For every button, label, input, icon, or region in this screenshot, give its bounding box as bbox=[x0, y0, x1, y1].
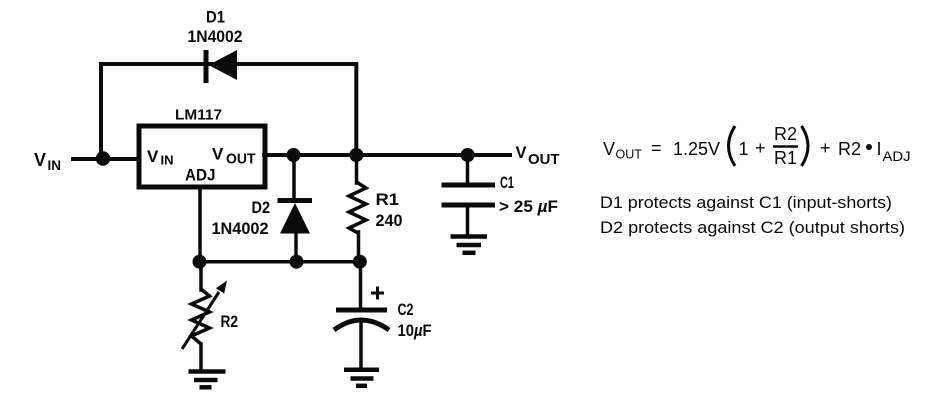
svg-text:ADJ: ADJ bbox=[185, 165, 216, 184]
svg-text:1.25V: 1.25V bbox=[673, 139, 720, 159]
svg-text:D2 protects against C2 (output: D2 protects against C2 (output shorts) bbox=[600, 219, 905, 237]
svg-text:R1: R1 bbox=[774, 148, 797, 168]
svg-text:+: + bbox=[755, 138, 766, 158]
svg-text:10µF: 10µF bbox=[398, 321, 432, 340]
svg-text:ADJ: ADJ bbox=[883, 148, 911, 164]
svg-text:I: I bbox=[877, 139, 882, 159]
svg-text:D2: D2 bbox=[252, 198, 271, 217]
svg-text:1N4002: 1N4002 bbox=[212, 219, 269, 238]
svg-text:240: 240 bbox=[376, 211, 403, 230]
svg-text:+: + bbox=[820, 138, 831, 158]
svg-text:V: V bbox=[516, 144, 527, 162]
svg-text:OUT: OUT bbox=[226, 150, 256, 167]
svg-text:OUT: OUT bbox=[528, 151, 560, 168]
svg-text:V: V bbox=[34, 150, 46, 170]
svg-text:R1: R1 bbox=[376, 190, 400, 209]
svg-text:LM117: LM117 bbox=[175, 107, 222, 124]
svg-text:R2: R2 bbox=[221, 312, 239, 331]
svg-text:R2: R2 bbox=[774, 124, 797, 144]
svg-text:V: V bbox=[147, 147, 159, 166]
svg-text:1N4002: 1N4002 bbox=[188, 27, 243, 46]
svg-text:IN: IN bbox=[161, 153, 174, 168]
svg-text:D1: D1 bbox=[206, 8, 225, 27]
svg-text:V: V bbox=[212, 145, 224, 164]
svg-text:R2: R2 bbox=[838, 139, 861, 159]
svg-text:> 25 µF: > 25 µF bbox=[499, 197, 558, 216]
svg-text:1: 1 bbox=[739, 139, 749, 159]
svg-text:=: = bbox=[651, 138, 662, 158]
svg-text:C1: C1 bbox=[500, 173, 514, 192]
svg-text:IN: IN bbox=[48, 158, 62, 173]
svg-text:C2: C2 bbox=[398, 300, 414, 319]
svg-text:D1 protects against C1 (input-: D1 protects against C1 (input-shorts) bbox=[600, 194, 892, 212]
svg-text:OUT: OUT bbox=[616, 148, 643, 162]
svg-text:V: V bbox=[603, 139, 615, 159]
